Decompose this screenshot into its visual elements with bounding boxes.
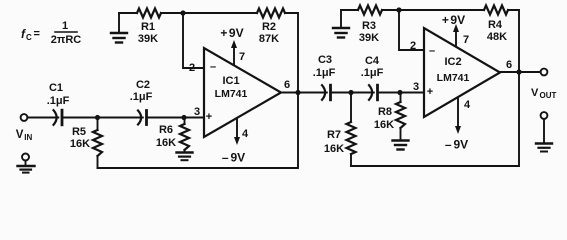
svg-text:+: + <box>206 111 212 123</box>
svg-text:C4: C4 <box>365 55 380 67</box>
svg-text:48K: 48K <box>487 31 507 43</box>
resistor R6 16K <box>156 118 189 153</box>
wire (C3 to C4) <box>331 92 374 94</box>
output ground terminal <box>536 112 552 151</box>
svg-text:R4: R4 <box>488 19 503 31</box>
svg-text:6: 6 <box>284 79 290 91</box>
svg-text:–: – <box>429 45 435 57</box>
capacitor C2 .1uF <box>130 79 153 125</box>
ground (under R1 left end) <box>111 13 127 43</box>
resistor R3 39K <box>358 6 382 45</box>
svg-text:R8: R8 <box>378 106 392 118</box>
svg-text:6: 6 <box>506 59 512 71</box>
svg-text:–: – <box>210 61 216 73</box>
wire (C4 to pin 3 of IC2) <box>378 92 425 94</box>
op-amp U2 IC2 LM741 <box>424 28 500 117</box>
svg-text:IC1: IC1 <box>222 75 239 87</box>
node (junction R1/R2/pin2) <box>180 10 185 15</box>
svg-text:OUT: OUT <box>540 91 557 100</box>
fraction bar <box>55 31 77 33</box>
svg-text:+9V: +9V <box>442 13 465 27</box>
capacitor C1 .1uF <box>47 82 70 125</box>
input ground terminal <box>18 154 35 173</box>
svg-text:2: 2 <box>189 62 195 74</box>
svg-text:R7: R7 <box>327 129 341 141</box>
svg-text:4: 4 <box>464 99 471 111</box>
svg-text:.1μF: .1μF <box>47 95 70 107</box>
pin 7 arrow +9V (IC1) <box>220 26 245 65</box>
node (IC1 output junction) <box>295 90 300 95</box>
svg-text:39K: 39K <box>359 32 379 44</box>
wire (VIN to C1) <box>27 117 58 119</box>
svg-text:LM741: LM741 <box>215 88 248 100</box>
svg-text:–9V: –9V <box>445 138 468 152</box>
svg-text:7: 7 <box>463 34 469 46</box>
svg-text:IC2: IC2 <box>444 56 461 68</box>
wire (R4 to feedback corner, down to output node) <box>508 10 519 72</box>
wire (R2 to feedback corner, down to output node) <box>285 13 298 93</box>
svg-text:+9V: +9V <box>220 26 243 40</box>
wire (top rail R3 to R4) <box>382 9 484 11</box>
wire (node to pin 2 of IC2) <box>399 10 424 50</box>
wire (top rail left of R1) <box>119 12 137 14</box>
resistor R7 16K <box>324 93 356 167</box>
resistor R5 16K <box>70 118 102 169</box>
svg-text:.1μF: .1μF <box>361 67 384 79</box>
svg-text:LM741: LM741 <box>437 72 470 84</box>
svg-text:–9V: –9V <box>222 151 245 165</box>
svg-text:R6: R6 <box>159 124 173 136</box>
wire (feedback bottom rail stage 2) <box>351 72 519 166</box>
pin 7 arrow +9V (IC2) <box>442 13 469 46</box>
svg-text:3: 3 <box>194 106 200 118</box>
svg-text:16K: 16K <box>324 143 344 155</box>
wire (top rail R1 to R2) <box>161 12 257 14</box>
svg-text:IN: IN <box>24 133 32 142</box>
svg-text:.1μF: .1μF <box>313 67 336 79</box>
ground (under R3 left end) <box>333 10 349 38</box>
svg-text:C3: C3 <box>318 54 332 66</box>
svg-text:16K: 16K <box>70 138 90 150</box>
svg-text:87K: 87K <box>259 33 279 45</box>
capacitor C3 .1uF <box>313 54 336 100</box>
svg-text:16K: 16K <box>156 137 176 149</box>
wire (IC1 output to C3) <box>281 92 327 94</box>
resistor R8 16K <box>374 93 405 141</box>
svg-text:R1: R1 <box>141 21 155 33</box>
wire (top rail left of R3) <box>341 9 358 11</box>
op-amp U1 IC1 LM741 <box>204 48 281 137</box>
wire (C2 to pin 3 of IC1) <box>147 117 205 119</box>
resistor R1 39K <box>137 9 161 46</box>
svg-text:39K: 39K <box>138 33 158 45</box>
svg-text:R2: R2 <box>262 21 276 33</box>
wire (node to pin 2 of IC1) <box>183 13 204 68</box>
svg-text:R5: R5 <box>72 126 86 138</box>
svg-text:C2: C2 <box>136 79 150 91</box>
wire (IC2 output to VOUT terminal) <box>500 71 541 73</box>
svg-text:+: + <box>427 86 433 98</box>
svg-text:R3: R3 <box>362 20 376 32</box>
svg-text:.1μF: .1μF <box>130 91 153 103</box>
node (C1/C2/R5 junction) <box>95 115 100 120</box>
pin 4 arrow -9V (IC1) <box>222 118 249 165</box>
pin 4 arrow -9V (IC2) <box>445 98 471 152</box>
node (C2/R6/pin3 junction) <box>181 115 186 120</box>
output terminal VOUT <box>531 69 557 100</box>
node (C4/R8/pin3 junction) <box>397 90 402 95</box>
input terminal VIN <box>16 114 33 142</box>
capacitor C4 .1uF <box>361 55 384 100</box>
svg-text:3: 3 <box>413 81 419 93</box>
svg-text:C: C <box>26 33 32 42</box>
ground (under R8) <box>393 141 409 150</box>
node (IC2 output junction) <box>516 69 521 74</box>
resistor R4 48K <box>484 6 508 44</box>
svg-text:2πRC: 2πRC <box>51 34 81 46</box>
svg-text:C1: C1 <box>49 82 63 94</box>
node (C3/C4/R7 junction) <box>348 90 353 95</box>
resistor R2 87K <box>257 9 285 46</box>
wire (C1 to C2) <box>62 117 143 119</box>
node (junction R3/R4/pin2 IC2) <box>396 7 401 12</box>
ground (under R6) <box>177 153 193 161</box>
svg-text:V: V <box>16 129 24 141</box>
svg-text:=: = <box>34 28 40 40</box>
svg-text:2: 2 <box>410 40 416 52</box>
wire (feedback bottom rail stage 1) <box>98 93 299 169</box>
svg-text:7: 7 <box>239 51 245 63</box>
svg-text:4: 4 <box>242 128 249 140</box>
svg-text:V: V <box>531 87 539 99</box>
formula fc = 1/(2piRC) <box>21 20 81 46</box>
svg-text:1: 1 <box>62 20 68 32</box>
svg-text:16K: 16K <box>374 119 394 131</box>
